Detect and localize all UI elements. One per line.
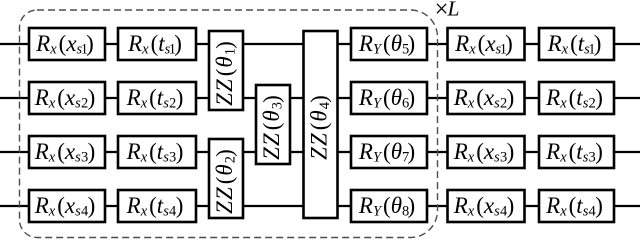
gate Rx(ts3) — [118, 136, 196, 168]
gate Rx(ts4) — [118, 190, 196, 222]
svg-text:Rx(ts1): Rx(ts1) — [547, 31, 602, 58]
gate Rx(xs4) second block — [448, 190, 525, 222]
gate Rx(xs1) second block — [448, 28, 525, 60]
gate Rx(xs4) — [29, 190, 105, 222]
gate Rx(xs3) second block — [448, 136, 525, 168]
svg-text:Rx(ts1): Rx(ts1) — [127, 31, 182, 58]
gate RY(th8) — [351, 190, 427, 222]
svg-text:Rx(ts3): Rx(ts3) — [545, 139, 603, 166]
gate Rx(xs2) — [29, 82, 105, 114]
gate Rx(ts1) — [118, 28, 196, 60]
wire q3 — [0, 151, 640, 153]
dashed repeat-block border — [20, 10, 438, 238]
svg-text:Rx(ts3): Rx(ts3) — [126, 139, 184, 166]
gate Rx(xs3) — [29, 136, 105, 168]
gate Rx(ts2) — [118, 82, 196, 114]
gate Rx(ts4) second block — [539, 190, 614, 222]
wire q2 — [0, 97, 640, 99]
gate Rx(xs1) — [29, 28, 105, 60]
gate RY(th6) — [351, 82, 427, 114]
svg-text:Rx(ts4): Rx(ts4) — [126, 193, 184, 220]
wire q1 — [0, 43, 640, 45]
gate Rx(ts3) second block — [539, 136, 614, 168]
gate Rx(xs2) second block — [448, 82, 525, 114]
svg-text:RY(θ7): RY(θ7) — [358, 139, 415, 166]
gate RY(th7) — [351, 136, 427, 168]
gate ZZ(th1) on q1q2 — [209, 31, 243, 110]
gate ZZ(th4) on q1-q4 — [304, 31, 338, 218]
svg-text:Rx(ts2): Rx(ts2) — [545, 85, 603, 112]
svg-text:RY(θ5): RY(θ5) — [358, 31, 415, 58]
gate Rx(ts1) second block — [539, 28, 614, 60]
gate RY(th5) — [351, 28, 427, 60]
svg-text:RY(θ6): RY(θ6) — [358, 85, 415, 112]
svg-text:RY(θ8): RY(θ8) — [358, 193, 415, 220]
svg-text:L: L — [447, 0, 460, 21]
gate Rx(ts2) second block — [539, 82, 614, 114]
svg-text:Rx(ts4): Rx(ts4) — [545, 193, 603, 220]
gate ZZ(th2) on q3q4 — [209, 139, 243, 218]
gate ZZ(th3) on q2q3 — [256, 85, 290, 164]
wire q4 — [0, 205, 640, 207]
svg-text:Rx(ts2): Rx(ts2) — [126, 85, 184, 112]
svg-text:×: × — [435, 0, 449, 23]
